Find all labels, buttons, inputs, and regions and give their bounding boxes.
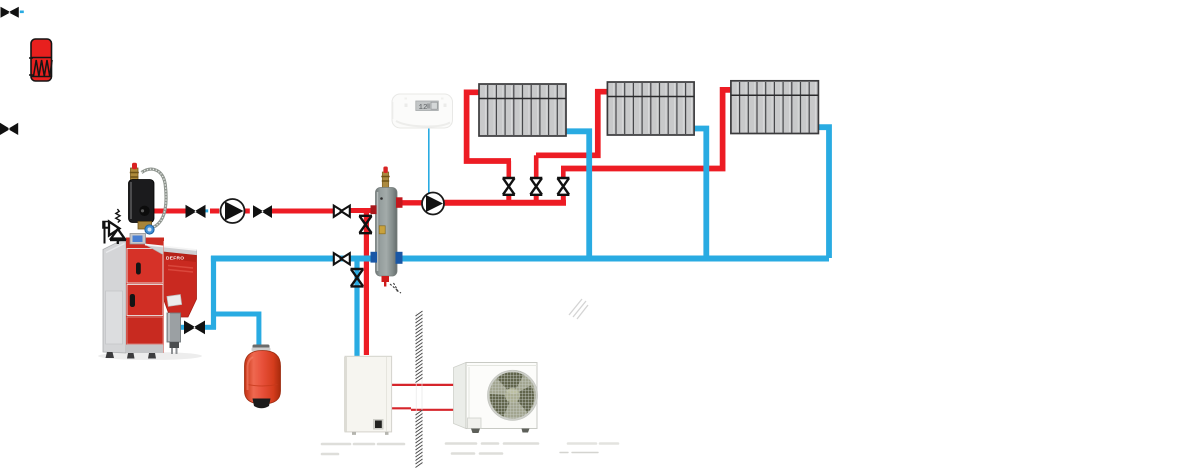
valve: boiler blue return V7	[184, 321, 205, 335]
hopper window	[167, 295, 182, 307]
valve: blue drop V6 (vertical)	[351, 269, 364, 286]
wire: blue valve to riser corner	[204, 325, 216, 330]
wire: dashed red between valve and pump P1	[186, 209, 219, 214]
pump P2	[422, 193, 444, 215]
faint gray scribble	[569, 299, 588, 319]
valve: margin top-left	[1, 7, 19, 18]
wire: stub above valve 2	[534, 155, 539, 179]
red tip	[132, 163, 137, 170]
boiler shadow	[98, 352, 202, 360]
radiator 2	[607, 82, 694, 135]
boiler hopper lid	[145, 245, 197, 259]
fan blades	[488, 371, 538, 421]
wire: main blue return line	[211, 256, 829, 262]
brass valve on top	[131, 168, 139, 182]
separator drain sketch marks	[390, 283, 401, 293]
wire: manifold stub under valve 1	[506, 194, 511, 201]
boiler left side panel	[103, 238, 126, 353]
wire: thermostat signal wire to pump P2	[428, 128, 430, 194]
boiler front-hopper edge	[163, 241, 165, 353]
boiler burner auger tube	[167, 313, 181, 342]
wire: expansion vessel branch	[211, 314, 259, 352]
wire: red run valve to separator left inlet	[350, 208, 373, 213]
vessel top cap	[253, 345, 270, 349]
wire: boiler blue riser	[211, 256, 216, 329]
wire: main red supply pump P2 to radiator manifold	[443, 200, 566, 206]
bottom brass fitting	[138, 222, 152, 230]
boiler controller display	[130, 234, 146, 245]
black pipe outlet boss	[139, 206, 149, 216]
separator side brass tap	[379, 226, 385, 234]
valve: margin lower-left	[0, 123, 18, 135]
separator red outlet flange	[396, 197, 403, 208]
separator air-vent red cap	[383, 167, 387, 174]
separator body	[376, 188, 398, 277]
radiator 3	[731, 81, 819, 134]
wire: manifold stub under valve 3	[561, 194, 566, 201]
outdoor unit feet	[471, 429, 480, 434]
boiler feet	[106, 352, 157, 359]
wire: radiator 2 feed elbow	[536, 92, 609, 156]
separator red inlet flange	[371, 205, 377, 214]
wire: red run valve to valve before separator	[272, 209, 334, 214]
svg-text:12: 12	[419, 104, 428, 112]
valve: blue main before separator V4	[334, 253, 350, 264]
wire: blue stub boiler burner to valve	[178, 325, 185, 330]
boiler front panel	[126, 238, 164, 354]
radiator 1	[479, 84, 566, 136]
separator bottom drain red handle	[382, 276, 390, 287]
spring zigzag	[116, 209, 120, 223]
valve: after pump V2	[253, 205, 272, 218]
black separator body	[129, 180, 155, 223]
boiler door handle upper	[136, 263, 141, 275]
vessel bottom foot	[253, 399, 271, 409]
safety valve triangles	[109, 222, 120, 236]
refrigerant line lower	[390, 408, 455, 410]
pump P1	[221, 199, 245, 223]
blue tick margin	[20, 11, 24, 14]
fan mesh grille	[489, 371, 537, 419]
wire: manifold stub under valve 2	[534, 194, 539, 201]
base line	[110, 238, 126, 241]
blue pressure gauge	[145, 225, 154, 234]
wire: radiator 3 feed elbow	[561, 90, 733, 169]
wire: stub above valve 3	[561, 170, 566, 179]
vessel body	[245, 351, 281, 405]
hopper brand band	[164, 252, 197, 262]
wire: blue tick after boiler valve	[205, 209, 209, 212]
valve: manifold radiator valve 2 (vertical)	[530, 178, 542, 195]
separator blue flange left	[371, 252, 378, 263]
separator air-vent brass valve	[382, 172, 388, 189]
wire: red drop to heat pump indoor unit	[364, 209, 369, 356]
valve: red before separator V3	[334, 206, 350, 217]
valve: red drop V5 (vertical)	[359, 216, 372, 233]
access panel	[468, 418, 482, 429]
faint watermark marks	[322, 444, 618, 455]
valve: manifold radiator valve 3 (vertical)	[557, 178, 569, 195]
wire: stub above valve 1	[506, 161, 511, 179]
flexible braided hose	[142, 169, 167, 227]
wire: dash between pump P1 and valve	[244, 209, 250, 214]
svg-text:DEFRO: DEFRO	[166, 256, 184, 262]
wire: radiator 1 feed elbow	[467, 92, 511, 161]
wire: blue drop to heat pump indoor unit	[354, 256, 359, 357]
left bracket pipe	[104, 221, 106, 244]
refrigerant line upper	[390, 384, 455, 386]
separator blue flange right	[396, 252, 403, 264]
wire: radiator 3 return elbow down to main	[817, 127, 829, 258]
boiler door handle lower	[130, 294, 135, 307]
wire: separator right outlet to pump P2	[396, 200, 423, 205]
wire: radiator 2 return elbow down to main	[693, 129, 706, 259]
outdoor unit body	[466, 363, 537, 429]
wire: boiler supply from black separator to valve	[148, 209, 186, 214]
valve: boiler supply V1	[186, 205, 206, 218]
outdoor unit side panel	[454, 363, 467, 429]
boiler hopper body	[164, 252, 197, 317]
valve: manifold radiator valve 1 (vertical)	[503, 178, 515, 195]
wire: radiator 1 return elbow down to main	[565, 131, 589, 258]
